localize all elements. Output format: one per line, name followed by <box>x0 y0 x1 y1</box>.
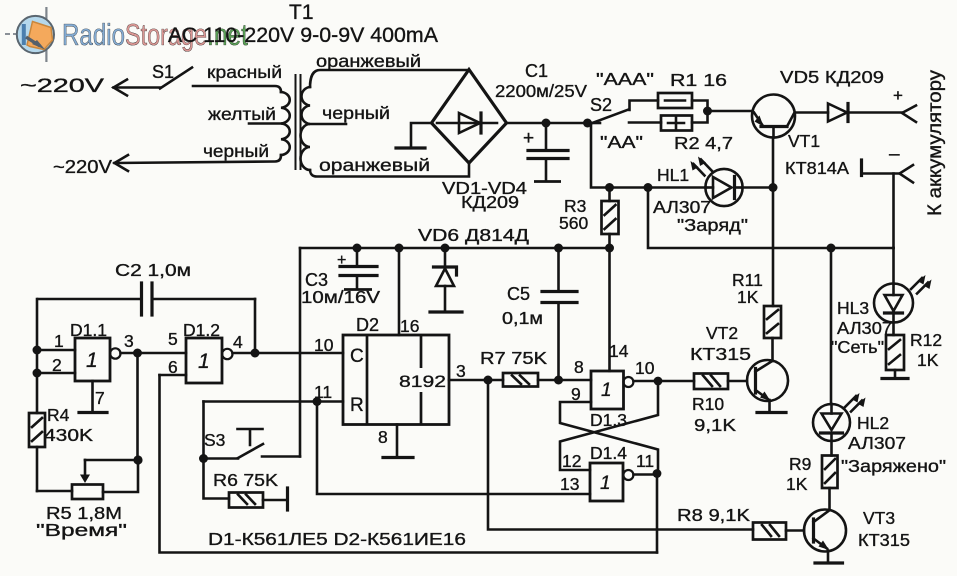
node dot timing <box>133 349 142 358</box>
svg-text:желтый: желтый <box>208 104 276 124</box>
svg-text:T1: T1 <box>289 1 314 24</box>
resistor R6 75K <box>204 459 288 511</box>
gate D1.4 <box>590 443 633 501</box>
svg-text:R9: R9 <box>789 454 811 474</box>
resistor R2 4,7 <box>661 111 733 153</box>
capacitor C3 10м/16V <box>301 248 380 307</box>
wire D1.3 pin9 from D1.4 output <box>560 402 658 474</box>
svg-text:R4: R4 <box>47 405 70 425</box>
resistor R4 430K <box>29 405 93 491</box>
zener diode VD6 Д814Д <box>418 225 529 312</box>
svg-text:оранжевый: оранжевый <box>316 51 421 71</box>
svg-text:S3: S3 <box>204 430 225 450</box>
capacitor C5 0,1м <box>502 248 577 380</box>
rail +9V A <box>300 247 610 250</box>
svg-text:1: 1 <box>86 349 98 372</box>
svg-text:АЛ307: АЛ307 <box>848 433 906 453</box>
svg-text:13: 13 <box>560 474 579 494</box>
svg-text:R7 75K: R7 75K <box>480 348 547 368</box>
wire minus terminal down to rail B <box>892 174 895 249</box>
node dot C3 <box>353 244 362 253</box>
wire D1.4 output down to bottom feedback <box>656 474 659 553</box>
wire красный (primary top tap) <box>193 62 282 92</box>
wire D1.3 output to R10 <box>634 380 695 383</box>
svg-text:красный: красный <box>207 62 282 82</box>
wire D1.2 pin6 <box>160 374 187 377</box>
node dot D1.3 output <box>654 377 663 386</box>
LED HL1 АЛ307 "Заряд" <box>653 157 748 236</box>
wire R8 branch drop <box>488 380 753 530</box>
svg-text:R1 16: R1 16 <box>670 70 727 90</box>
svg-text:+: + <box>893 86 903 105</box>
node dot C1 <box>542 119 551 128</box>
transformer core <box>296 74 301 170</box>
svg-text:КТ814А: КТ814А <box>785 158 849 178</box>
svg-text:R10: R10 <box>692 394 724 414</box>
gate D1.3 <box>590 371 633 430</box>
svg-text:1K: 1K <box>786 474 808 494</box>
svg-text:1: 1 <box>54 331 64 351</box>
svg-text:1: 1 <box>198 350 210 373</box>
resistor R7 75K <box>480 348 591 387</box>
svg-text:430K: 430K <box>44 425 93 445</box>
svg-text:C5: C5 <box>507 284 530 304</box>
resistor R11 1K <box>732 270 781 338</box>
svg-text:D1-К561ЛЕ5 D2-К561ИЕ16: D1-К561ЛЕ5 D2-К561ИЕ16 <box>208 529 466 549</box>
LED HL3 АЛ307 "Сеть" <box>831 275 932 357</box>
svg-text:1K: 1K <box>917 350 939 370</box>
ground VT3 emitter <box>815 561 843 564</box>
ground VT2 emitter <box>757 411 786 414</box>
node dot rail B branch <box>644 183 653 192</box>
wire VT2 emitter to ground <box>768 400 771 412</box>
wire D2 pin14 drop <box>608 248 611 371</box>
svg-text:560: 560 <box>559 213 588 233</box>
svg-text:К аккумулятору: К аккумулятору <box>925 69 946 216</box>
svg-text:16: 16 <box>400 316 419 336</box>
wire R node to D1.4 pin13 <box>317 402 590 495</box>
resistor R12 1K <box>882 311 942 379</box>
pushbutton S3 <box>199 429 300 463</box>
wire HL1 to VT1 base node <box>742 186 773 189</box>
resistor R1 16 <box>658 70 727 108</box>
svg-text:R12: R12 <box>910 330 942 350</box>
resistor R9 1K <box>786 454 838 494</box>
svg-text:+: + <box>523 128 534 149</box>
svg-text:R: R <box>350 395 364 416</box>
svg-text:"Сеть": "Сеть" <box>831 337 884 357</box>
rail B from HL1 node <box>648 188 894 249</box>
node dot C2/D1.2 output <box>251 349 260 358</box>
wire D1.2 output to D2 pin10 <box>233 352 344 355</box>
capacitor C1 2200м/25V <box>495 61 587 182</box>
svg-text:D2: D2 <box>356 315 379 335</box>
wire D1.1 output to D1.2 pin5 <box>121 352 187 355</box>
wire D1.1 input column <box>33 299 76 413</box>
svg-text:0,1м: 0,1м <box>502 308 543 328</box>
svg-text:C: C <box>350 346 364 367</box>
svg-text:R8 9,1K: R8 9,1K <box>677 505 750 525</box>
svg-text:10: 10 <box>635 358 655 378</box>
svg-text:черный: черный <box>322 103 390 123</box>
svg-text:HL1: HL1 <box>657 165 689 185</box>
wire bridge right vertex to S2 <box>507 122 588 125</box>
resistor R8 9,1K <box>677 505 804 540</box>
wire R11 to VT2 collector <box>771 338 774 361</box>
wire VT2 base from R10 <box>728 380 747 383</box>
node dot HL2 branch <box>827 244 836 253</box>
bridge rectifier VD1-VD4 КД209 <box>432 70 528 213</box>
svg-text:1: 1 <box>600 473 611 494</box>
svg-text:8192: 8192 <box>399 372 446 391</box>
svg-text:14: 14 <box>609 341 629 361</box>
svg-text:Radio: Radio <box>62 17 125 52</box>
wire D2 pin16 <box>398 248 401 335</box>
svg-text:1K: 1K <box>737 287 759 307</box>
ground from bridge left vertex <box>396 123 432 148</box>
svg-text:9,1K: 9,1K <box>694 415 736 435</box>
node dot VT1 base <box>769 183 778 192</box>
svg-text:3: 3 <box>456 361 466 381</box>
svg-text:КТ315: КТ315 <box>690 344 751 364</box>
svg-text:VT2: VT2 <box>706 323 738 343</box>
wire D1.3 output to D1.4 pin12 (latch cross) <box>560 381 658 470</box>
wire оранжевый secondary bottom tap to bridge <box>310 155 469 177</box>
svg-text:VT3: VT3 <box>863 508 895 528</box>
wire to VT1 emitter <box>708 110 753 113</box>
svg-text:VT1: VT1 <box>788 131 820 151</box>
svg-text:"AAA": "AAA" <box>596 69 654 89</box>
battery minus terminal <box>862 144 914 183</box>
svg-text:"Заряжено": "Заряжено" <box>841 456 946 476</box>
transistor VT1 КТ814А <box>752 95 849 179</box>
node dot C5 <box>554 244 563 253</box>
logo globe icon <box>5 7 54 62</box>
node dot VD6 <box>441 244 450 253</box>
svg-text:C2 1,0м: C2 1,0м <box>115 260 191 280</box>
node dot C5 bottom / pin8 line <box>554 376 563 385</box>
svg-text:8: 8 <box>378 427 388 447</box>
svg-text:"AA": "AA" <box>600 132 643 152</box>
node dot R8 branch <box>484 376 493 385</box>
counter D2 К561ИЕ16 8192 <box>343 315 449 425</box>
switch S1 <box>152 62 192 89</box>
svg-text:КД209: КД209 <box>461 192 519 212</box>
wire желтый (primary middle tap) <box>208 104 281 124</box>
node dot D1.4 output <box>653 469 662 478</box>
svg-text:VD5 КД209: VD5 КД209 <box>780 67 884 87</box>
wire VT3 emitter to ground <box>827 551 830 563</box>
resistor R10 9,1K <box>692 374 736 436</box>
transformer T1 primary winding <box>281 92 290 155</box>
svg-text:АЛ307: АЛ307 <box>837 318 892 338</box>
svg-text:7: 7 <box>95 388 105 408</box>
wire R line left drop to S3 <box>202 402 205 459</box>
node dot R line <box>313 397 322 406</box>
wire D2 pin3 output <box>449 361 503 381</box>
wire timing feedback drop <box>136 353 139 460</box>
svg-text:S2: S2 <box>590 95 612 115</box>
svg-text:"Заряд": "Заряд" <box>677 215 748 235</box>
wire D1.1 pin7 to ground <box>79 381 107 413</box>
transistor VT3 КТ315 <box>804 508 910 552</box>
wire S2 drop and HL1 row <box>591 123 706 188</box>
svg-text:1: 1 <box>601 380 612 401</box>
svg-text:черный: черный <box>203 141 269 161</box>
svg-text:R6 75K: R6 75K <box>213 470 278 490</box>
svg-text:4: 4 <box>233 332 243 352</box>
wire D2 pin8 to ground <box>378 425 413 458</box>
logo text RadioStorage.net <box>62 17 248 52</box>
node dot R3 top <box>605 183 614 192</box>
node dot D2 pin16 <box>395 244 404 253</box>
wire HL2 to R9 <box>830 433 833 456</box>
resistor R3 560 <box>559 188 619 248</box>
diode VD5 КД209 <box>780 67 902 122</box>
transformer T1 secondary winding <box>301 87 311 170</box>
svg-text:10: 10 <box>314 335 334 355</box>
transistor VT2 КТ315 <box>690 323 788 401</box>
gate D1.1 <box>70 320 121 381</box>
wire D2 reset R line <box>204 400 344 403</box>
svg-text:АЛ307: АЛ307 <box>653 197 711 217</box>
svg-text:S1: S1 <box>152 62 174 82</box>
svg-text:2200м/25V: 2200м/25V <box>495 81 587 101</box>
gate D1.2 <box>183 320 233 383</box>
svg-text:R2 4,7: R2 4,7 <box>674 133 733 153</box>
wire черный secondary center tap <box>310 103 390 124</box>
wire ~220V bottom input with arrow and черный tap <box>53 141 281 177</box>
node dot R3 bottom / pin14 <box>605 244 614 253</box>
wire VT1 base down through node to R11 <box>772 138 775 307</box>
svg-text:"Время": "Время" <box>36 520 127 540</box>
svg-text:~220V: ~220V <box>20 76 104 97</box>
node dot R1/R2 <box>703 107 712 116</box>
svg-text:–: – <box>889 144 900 165</box>
svg-text:D1.3: D1.3 <box>590 410 627 430</box>
svg-text:HL2: HL2 <box>857 413 889 433</box>
svg-text:КТ315: КТ315 <box>858 530 910 550</box>
svg-text:HL3: HL3 <box>837 298 869 318</box>
svg-text:3: 3 <box>124 331 134 351</box>
wire ~220V top input with arrow <box>20 76 160 97</box>
svg-text:5: 5 <box>168 329 178 349</box>
battery plus terminal <box>893 86 916 122</box>
svg-text:8: 8 <box>574 357 584 377</box>
wire оранжевый secondary top tap to bridge <box>310 51 469 87</box>
svg-text:12: 12 <box>562 451 581 471</box>
switch S2 <box>583 95 661 128</box>
svg-text:АС 110-220V 9-0-9V 400mA: АС 110-220V 9-0-9V 400mA <box>168 24 438 47</box>
potentiometer R5 1,8М "Время" <box>36 455 143 540</box>
wire pin6 drop to bottom latch feedback <box>160 375 658 553</box>
svg-text:C1: C1 <box>525 61 548 81</box>
svg-text:VD6 Д814Д: VD6 Д814Д <box>418 225 529 245</box>
capacitor C2 1,0м <box>38 260 255 315</box>
wire HL2 drop <box>830 248 833 404</box>
svg-text:D1.4: D1.4 <box>590 443 627 463</box>
svg-text:оранжевый: оранжевый <box>319 155 430 175</box>
wire C2 right drop to D1.2 output node <box>254 299 257 353</box>
wire +9V drop to S3 <box>299 248 302 457</box>
wire HL3 drop <box>892 248 895 284</box>
wire VT3 collector from R9 <box>828 488 831 510</box>
wire D1.4 output <box>634 473 658 476</box>
svg-text:~220V: ~220V <box>53 157 112 177</box>
svg-text:11: 11 <box>636 451 654 471</box>
LED HL2 АЛ307 <box>813 393 906 453</box>
